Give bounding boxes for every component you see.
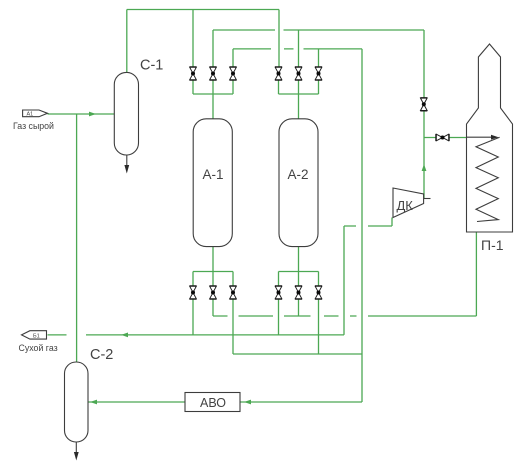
wire ABO outlet to C-2 bbox=[88, 401, 185, 403]
wire stem valve V3 up bbox=[232, 49, 234, 67]
svg-text:С-1: С-1 bbox=[140, 58, 163, 74]
wire cooler feed line to ABO bbox=[240, 401, 362, 403]
wire stem valve V6 up bbox=[318, 49, 320, 67]
wire hot regeneration gas line from P-1 bbox=[213, 222, 476, 316]
valve V5 bbox=[295, 67, 302, 80]
arrow flow up on discharge riser bbox=[422, 164, 427, 171]
wire stem valve V1 up bbox=[192, 10, 194, 68]
svg-text:С-2: С-2 bbox=[90, 347, 113, 363]
valve W4 bbox=[275, 286, 282, 299]
arrow flow left into ABO bbox=[244, 400, 251, 405]
vessel C-2 bbox=[65, 362, 89, 442]
wire stem valve W4 down bbox=[278, 299, 280, 335]
adsorber A-2 bbox=[279, 119, 318, 247]
valve W6 bbox=[315, 286, 322, 299]
svg-text:А-2: А-2 bbox=[288, 167, 309, 182]
wire dry gas header bbox=[48, 334, 345, 336]
flag B1 dry gas stream bbox=[22, 331, 47, 340]
furnace coil inlet bbox=[467, 135, 499, 140]
air cooler ABO bbox=[185, 393, 240, 412]
vessel C-1 bbox=[114, 72, 138, 155]
valve V7 on discharge riser bbox=[420, 98, 427, 111]
svg-text:ДК: ДК bbox=[397, 198, 414, 213]
label raw gas bbox=[13, 121, 54, 131]
valve V6 bbox=[315, 67, 322, 80]
valve W3 bbox=[230, 286, 237, 299]
label A-2 bbox=[288, 167, 309, 182]
wire stem valve W2 down bbox=[212, 299, 214, 316]
label dry gas bbox=[19, 343, 58, 353]
label C-2 bbox=[90, 347, 113, 363]
wire A-1 bottom valve manifold bbox=[193, 247, 233, 286]
svg-text:Сухой газ: Сухой газ bbox=[19, 343, 58, 353]
svg-text:АВО: АВО bbox=[200, 396, 226, 410]
wire stem valve V4 up bbox=[278, 10, 280, 68]
valve V8 furnace feed bbox=[436, 134, 449, 141]
svg-text:А1: А1 bbox=[27, 112, 34, 118]
label DK bbox=[397, 198, 414, 213]
valve W5 bbox=[295, 286, 302, 299]
valve W1 bbox=[190, 286, 197, 299]
wire furnace feed branch bbox=[424, 137, 467, 139]
valve V1 bbox=[190, 67, 197, 80]
svg-text:А-1: А-1 bbox=[203, 167, 224, 182]
arrow flow left into C-2 bbox=[90, 400, 97, 405]
wire stem valve V2 up bbox=[212, 30, 214, 67]
wire compressor suction bbox=[344, 218, 392, 335]
svg-text:Газ сырой: Газ сырой bbox=[13, 121, 54, 131]
label P-1 bbox=[481, 237, 504, 253]
wire A-2 top valve manifold bbox=[279, 81, 319, 119]
wire regeneration header line 2 bbox=[213, 29, 424, 31]
wire cooling header line 3 bbox=[233, 48, 362, 50]
svg-text:Б1: Б1 bbox=[33, 333, 40, 339]
valve V2 bbox=[210, 67, 217, 80]
furnace P-1 bbox=[467, 44, 513, 232]
wire compressor discharge riser bbox=[423, 30, 425, 198]
adsorber A-1 bbox=[193, 119, 232, 247]
wire C-1 top riser bbox=[126, 10, 128, 73]
furnace coil bbox=[476, 137, 500, 221]
arrow flow left on dry gas header bbox=[121, 333, 128, 338]
arrow flow right on raw gas line bbox=[89, 112, 96, 117]
wire stem valve W5 down bbox=[298, 299, 300, 316]
svg-text:П-1: П-1 bbox=[481, 237, 504, 253]
compressor DK bbox=[393, 188, 431, 218]
arrow C-1 bottom drain bbox=[124, 155, 129, 174]
wire branch down to C-2 top bbox=[76, 114, 78, 362]
wire raw gas inlet to C-1 bbox=[48, 113, 115, 115]
valve W2 bbox=[210, 286, 217, 299]
label C-1 bbox=[140, 58, 163, 74]
wire A-1 top valve manifold bbox=[193, 81, 233, 119]
label ABO bbox=[200, 396, 226, 410]
wire A-2 bottom valve manifold bbox=[279, 247, 319, 286]
arrow C-2 bottom drain bbox=[74, 442, 79, 461]
wire cooler downcomer bbox=[361, 49, 363, 402]
wire bottom manifold to downcomer bbox=[233, 299, 362, 354]
wire stem valve W1 down bbox=[192, 299, 194, 335]
flag A1 raw gas stream bbox=[23, 110, 48, 118]
wire top feed header line 1 bbox=[127, 9, 279, 11]
valve V4 bbox=[275, 67, 282, 80]
label A-1 bbox=[203, 167, 224, 182]
wire stem valve V5 up bbox=[298, 30, 300, 67]
valve V3 bbox=[230, 67, 237, 80]
